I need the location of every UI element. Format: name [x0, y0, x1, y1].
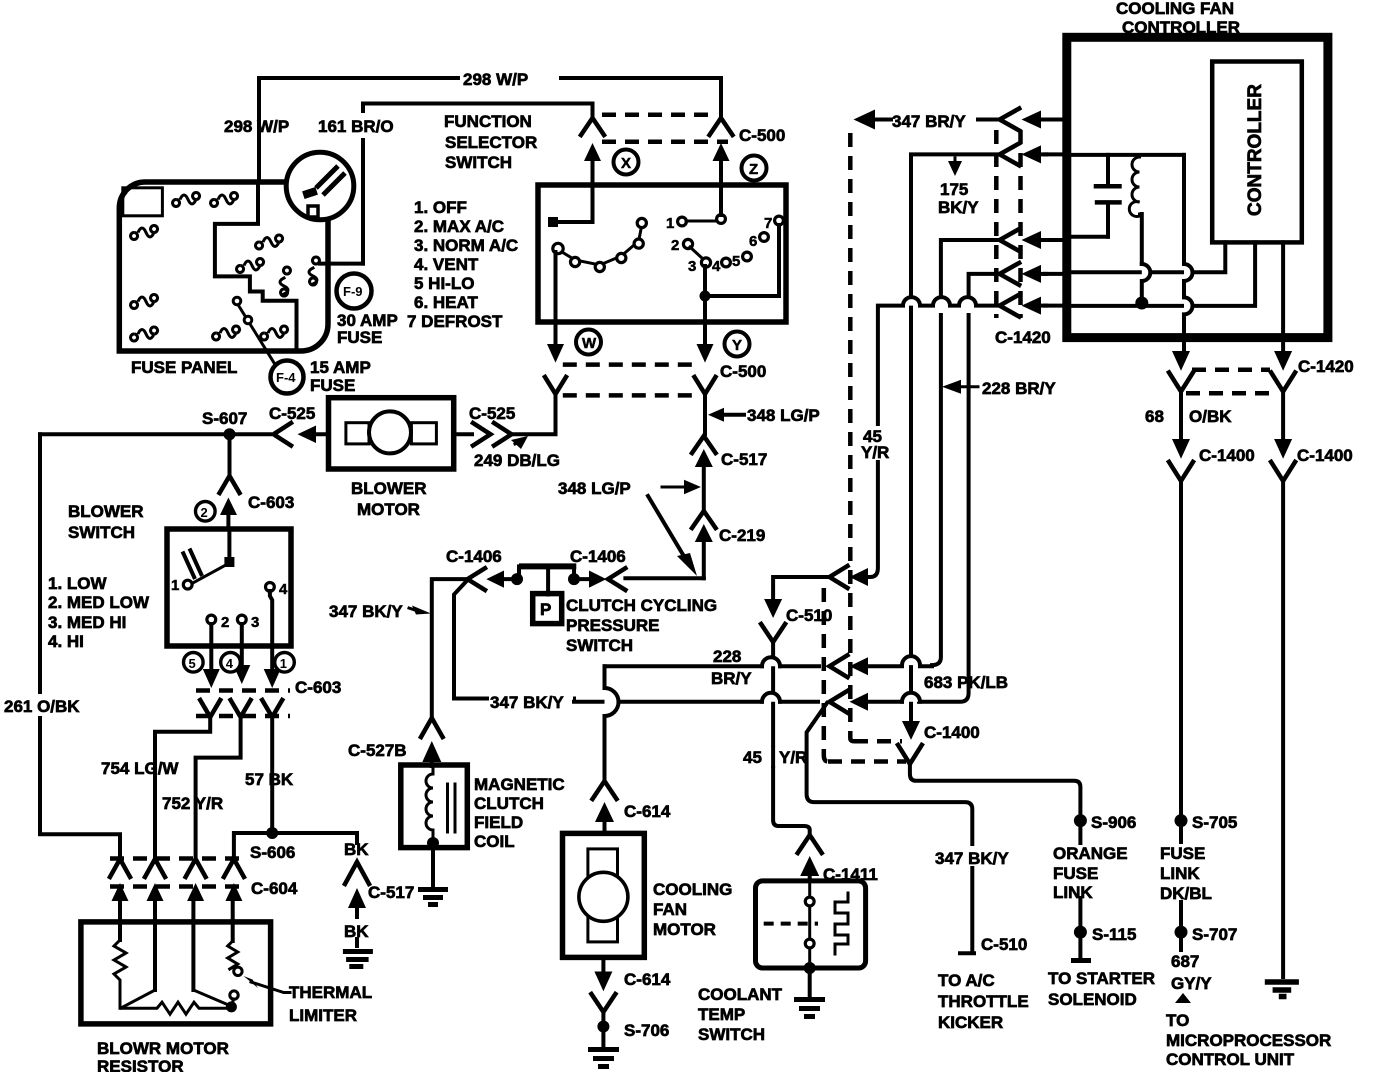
fuse S2 vertical	[309, 257, 319, 285]
junction node coil out	[427, 837, 439, 849]
connector row B female chevron	[830, 655, 848, 677]
coolant temp switch box	[756, 881, 866, 968]
junction node S-706	[597, 1021, 609, 1033]
connector C-603 male arrow t2	[203, 669, 220, 688]
svg-text:FUNCTION: FUNCTION	[444, 112, 532, 131]
connector C-1420 row4 female chevron	[1000, 263, 1020, 285]
connector C-525 left male arrow	[298, 426, 317, 444]
fuse row1b	[211, 193, 238, 207]
svg-text:C-1420: C-1420	[995, 328, 1051, 347]
connector row female chevron col2	[145, 859, 165, 877]
svg-text:348 LG/P: 348 LG/P	[747, 406, 820, 425]
resistor element col1	[114, 940, 126, 1008]
connector C-1420 bottom female chevron right	[1271, 373, 1295, 392]
wire 752 Y/R	[196, 717, 241, 856]
wire 347 BK/Y right of hop	[780, 700, 818, 704]
junction node S-606	[266, 827, 278, 839]
connector C-510 male arrow down	[764, 599, 782, 618]
resistor diagonal col3	[193, 990, 231, 1006]
connector C-1411 male arrow	[800, 856, 819, 876]
coolant temp switch thermistor	[835, 893, 848, 954]
controller cap row2 wire	[1071, 153, 1184, 157]
connector C-1400 female chevron left col	[1169, 462, 1193, 481]
svg-text:175: 175	[940, 180, 968, 199]
connector C-1420 bottom dashed boundaries	[1192, 367, 1270, 372]
svg-text:PRESSURE: PRESSURE	[566, 616, 660, 635]
leader arrow 347 BK/Y	[412, 606, 431, 615]
wire fuse to 161 BR/O	[320, 262, 363, 266]
connector C-500 male arrow X	[584, 143, 601, 161]
connector C-1420 row3 male arrow	[1022, 231, 1042, 249]
wire 161 BR/O	[363, 104, 593, 264]
arrow 347 BR/Y end	[854, 110, 876, 130]
svg-text:SWITCH: SWITCH	[445, 153, 512, 172]
svg-text:BK/Y: BK/Y	[938, 198, 979, 217]
svg-text:MOTOR: MOTOR	[653, 920, 716, 939]
terminal circle Y	[725, 332, 750, 357]
svg-text:BLOWER: BLOWER	[68, 502, 144, 521]
connector C-614 bottom male arrow	[594, 972, 612, 992]
wire C-510 down to coolant branch	[773, 641, 810, 832]
svg-text:1: 1	[280, 656, 287, 671]
svg-text:COOLANT: COOLANT	[698, 985, 783, 1004]
label circled 2	[196, 502, 216, 522]
connector row A male arrow (45 Y/R)	[850, 568, 869, 586]
svg-text:C-219: C-219	[719, 526, 765, 545]
svg-text:C-527B: C-527B	[348, 741, 407, 760]
wire coil to ground	[431, 848, 435, 887]
ignition switch circle	[286, 152, 354, 220]
svg-text:ORANGE: ORANGE	[1053, 844, 1128, 863]
selector wiper feed wire	[556, 185, 593, 222]
svg-text:SELECTOR: SELECTOR	[445, 133, 537, 152]
connector C-525 right chevron a	[473, 423, 491, 446]
svg-text:TO STARTER: TO STARTER	[1048, 969, 1155, 988]
selector wiper contacts	[553, 218, 647, 271]
svg-text:3. NORM A/C: 3. NORM A/C	[414, 236, 518, 255]
fuse row6c	[261, 326, 288, 340]
svg-text:BK: BK	[344, 840, 369, 859]
svg-text:CONTROLLER: CONTROLLER	[1245, 84, 1266, 216]
wire C-1406 source bus	[519, 563, 576, 569]
connector C-1420 row5 male arrow	[1022, 297, 1042, 315]
svg-text:687: 687	[1171, 952, 1199, 971]
wire controller right ground column	[1281, 480, 1285, 977]
terminal circle Z	[742, 156, 767, 181]
label circled 1	[275, 653, 295, 673]
label 347 BK/Y third	[933, 846, 1013, 866]
svg-text:MAGNETIC: MAGNETIC	[474, 775, 565, 794]
svg-text:752 Y/R: 752 Y/R	[162, 794, 223, 813]
connector C-1420 dashed boundaries	[994, 130, 999, 318]
connector C-1420 row4 male arrow	[1022, 265, 1042, 283]
connector C-500 top: female chevron X	[581, 118, 604, 135]
svg-text:348 LG/P: 348 LG/P	[558, 479, 631, 498]
svg-text:S-606: S-606	[250, 843, 295, 862]
svg-text:3. MED HI: 3. MED HI	[48, 613, 126, 632]
selector left terminal	[548, 217, 558, 227]
connector C-510 female chevron	[761, 624, 785, 642]
connector row A female chevron	[830, 566, 848, 588]
label 45 Y/R lower	[742, 747, 800, 766]
ground coolant temp switch	[794, 1000, 825, 1017]
svg-text:P: P	[540, 600, 551, 619]
connector C-500 top: female chevron Z	[710, 118, 733, 135]
connector C-1400 male arrow	[902, 721, 920, 740]
blower switch lever handle	[183, 549, 203, 580]
wire 261 O/BK left trunk	[40, 434, 120, 856]
wire fuse link lower	[1179, 902, 1183, 950]
svg-text:C-1400: C-1400	[1297, 446, 1353, 465]
svg-text:Y/R: Y/R	[779, 748, 807, 767]
arrow 249 DB/LG pointer	[511, 436, 528, 449]
svg-text:FUSE PANEL: FUSE PANEL	[131, 358, 237, 377]
selector blade 2-3	[690, 247, 703, 259]
svg-text:C-603: C-603	[295, 678, 341, 697]
fuse F-9 circle	[337, 274, 372, 309]
inductor coil controller	[1129, 157, 1139, 217]
selector wiper arc	[559, 225, 642, 265]
wire row1 347 BR/Y stub	[1045, 118, 1067, 122]
svg-text:LINK: LINK	[1160, 864, 1200, 883]
wire C-1406 to 347 BK/Y branch	[454, 580, 490, 699]
junction node S-115	[1074, 926, 1087, 939]
connector C-1420 row1 female chevron	[1000, 109, 1020, 131]
wire coolant to ground	[808, 968, 812, 996]
svg-text:C-517: C-517	[721, 450, 767, 469]
svg-text:S-706: S-706	[624, 1021, 669, 1040]
coolant temp switch dashed actuator	[764, 922, 818, 926]
connector C-1406 right male arrow	[589, 571, 606, 588]
svg-text:S-906: S-906	[1091, 813, 1136, 832]
svg-text:1. LOW: 1. LOW	[48, 574, 108, 593]
blower motor armature circle	[369, 411, 411, 453]
connector C-517 BK female chevron	[345, 862, 369, 884]
svg-text:S-115: S-115	[1092, 925, 1136, 944]
blower motor box	[329, 398, 454, 469]
svg-text:C-525: C-525	[469, 404, 515, 423]
connector C-614 bottom female chevron	[591, 994, 615, 1012]
fuse row3	[256, 235, 283, 249]
svg-text:GY/Y: GY/Y	[1171, 974, 1212, 993]
svg-text:SWITCH: SWITCH	[566, 636, 633, 655]
wire terminal 3 out	[240, 624, 244, 664]
function selector switch box	[538, 185, 786, 322]
coolant temp switch contacts	[808, 881, 811, 897]
wire to W branch	[512, 395, 556, 434]
svg-text:O/BK: O/BK	[1189, 407, 1232, 426]
fuse F-4 circle	[271, 361, 304, 394]
svg-text:4: 4	[226, 656, 234, 671]
connector C-1400 right col male arrow left	[1172, 439, 1190, 459]
selector 7-to-Y link wire	[705, 225, 779, 296]
svg-text:RESISTOR: RESISTOR	[97, 1057, 184, 1072]
connector C-604 male arrow col3	[187, 883, 204, 901]
connector C-1420 row2 female chevron	[1000, 143, 1020, 165]
wire row3 stub	[1045, 238, 1067, 242]
wire 68 O/BK	[1179, 391, 1183, 427]
svg-text:161 BR/O: 161 BR/O	[318, 117, 394, 136]
svg-text:261 O/BK: 261 O/BK	[4, 697, 80, 716]
svg-text:LINK: LINK	[1053, 883, 1093, 902]
wire orange fuse link lower	[1078, 898, 1082, 958]
svg-text:Y/R: Y/R	[861, 443, 889, 462]
wire row2 to C-1400 trunk	[911, 154, 1000, 722]
svg-text:3: 3	[688, 258, 696, 275]
connector C-219 female chevron	[692, 511, 716, 528]
svg-text:C-1420: C-1420	[1298, 357, 1354, 376]
connector C-1411 female chevron	[798, 835, 822, 853]
svg-text:TEMP: TEMP	[698, 1005, 745, 1024]
svg-text:C-1400: C-1400	[1199, 446, 1255, 465]
svg-text:2: 2	[671, 237, 679, 254]
svg-text:FAN: FAN	[653, 900, 687, 919]
wire 347 BK/Y diagonal to throttle kicker	[807, 703, 974, 953]
wire row5 stub	[1045, 304, 1067, 308]
svg-text:15 AMP: 15 AMP	[310, 358, 371, 377]
selector Z feed	[719, 185, 723, 215]
wire 45 Y/R continues	[870, 462, 878, 577]
wire 57 BK	[270, 717, 274, 832]
blower motor right brush	[411, 423, 436, 444]
connector row female chevron col4	[224, 859, 244, 877]
connector C-603 dashed boundary	[196, 688, 290, 693]
wire blower motor output	[454, 432, 472, 436]
svg-text:2: 2	[221, 614, 229, 631]
fuse panel corner notch	[123, 188, 163, 216]
terminal bar starter solenoid	[1071, 958, 1091, 963]
connector C-1420 row1 male arrow	[1022, 111, 1042, 129]
connector C-604 male arrow col1	[112, 883, 129, 901]
svg-text:298 W/P: 298 W/P	[224, 117, 289, 136]
svg-text:2. MED LOW: 2. MED LOW	[48, 593, 150, 612]
capacitor plates	[1094, 184, 1122, 189]
label circled 4	[221, 653, 241, 673]
magnetic clutch field coil box	[401, 765, 468, 848]
wire C-1400 to orange fuse link	[910, 763, 1081, 843]
svg-text:BK: BK	[344, 922, 369, 941]
connector row C female chevron	[830, 691, 848, 713]
clutch coil core bars	[448, 784, 456, 832]
connector C-500 bottom female chevron W	[545, 377, 566, 394]
wire 228 BR/Y to fan motor	[605, 664, 820, 668]
svg-text:4: 4	[712, 258, 721, 275]
wire S-607 bus	[40, 432, 270, 436]
svg-text:C-604: C-604	[251, 879, 298, 898]
svg-text:BR/Y: BR/Y	[711, 669, 752, 688]
arrow 348 LG/P pointer upper	[708, 408, 724, 422]
connector S-606/C-604 dashed boundaries	[110, 856, 245, 861]
wire fuse link dk/bl column	[1179, 480, 1183, 843]
cooling fan controller box	[1067, 37, 1328, 337]
dashed connector line C-500 vertical	[848, 133, 853, 738]
svg-text:4: 4	[279, 581, 288, 598]
svg-text:CLUTCH: CLUTCH	[474, 794, 544, 813]
connector row female chevron col1	[110, 859, 130, 877]
fuse row5	[131, 295, 158, 309]
wire terminal 2 out	[209, 624, 213, 668]
connector C-500 top dashed boundary	[602, 113, 714, 118]
fuse panel outline	[119, 182, 328, 351]
wire coil bottom with hop	[1140, 214, 1144, 264]
svg-text:SOLENOID: SOLENOID	[1048, 990, 1137, 1009]
wire hop row B over C-1400 trunk	[902, 656, 920, 665]
connector C-1406 left female chevron	[468, 568, 486, 590]
connector C-603 top male arrow	[220, 498, 237, 516]
fan motor armature circle	[579, 872, 628, 921]
svg-text:4. VENT: 4. VENT	[414, 255, 479, 274]
wire row2 stub	[1045, 152, 1067, 156]
wire 347 BK/Y to coolant branch	[490, 697, 574, 701]
svg-text:C-500: C-500	[720, 362, 766, 381]
fuse panel inner partition	[215, 182, 297, 351]
svg-text:COOLING: COOLING	[653, 880, 732, 899]
fuse row2	[131, 226, 158, 240]
connector C-1420 row2 male arrow	[1022, 145, 1042, 163]
blower switch terminal 4	[266, 583, 275, 592]
blower switch terminal 3	[237, 615, 246, 624]
junction node S-707	[1175, 926, 1188, 939]
svg-text:2: 2	[201, 505, 208, 520]
svg-text:C-517: C-517	[368, 883, 414, 902]
leader diagonal 348 LG/P	[648, 496, 688, 563]
connector C-500 bottom dashed boundary	[563, 362, 696, 367]
wire row A to C-510	[773, 577, 829, 598]
ground right column	[1265, 982, 1299, 997]
connector C-527B female chevron	[421, 718, 443, 737]
label 228 BR/Y right	[942, 380, 961, 394]
svg-text:45: 45	[743, 748, 762, 767]
svg-text:C-1400: C-1400	[924, 723, 980, 742]
connector C-1400 female chevron right col	[1271, 462, 1295, 481]
blower switch terminal 2	[207, 615, 216, 624]
connector C-603 female chevron c1	[200, 700, 220, 717]
connector C-1420 bottom male arrow left	[1172, 351, 1190, 371]
svg-text:MOTOR: MOTOR	[357, 500, 420, 519]
svg-text:5: 5	[732, 253, 740, 270]
connector C-1420 row5 female chevron	[1000, 295, 1020, 317]
selector terminal row1 link	[686, 220, 717, 223]
connector C-1400 female chevron	[898, 745, 922, 764]
svg-text:BLOWER: BLOWER	[351, 479, 427, 498]
svg-text:347 BK/Y: 347 BK/Y	[935, 849, 1009, 868]
svg-text:228: 228	[713, 647, 741, 666]
blower switch wiper blade	[191, 563, 229, 584]
connector C-517 BK male arrow	[348, 888, 366, 908]
resistor bottom bus	[120, 1002, 231, 1014]
ignition key glyph	[316, 166, 338, 188]
cooling fan motor box	[563, 833, 645, 957]
svg-text:MICROPROCESSOR: MICROPROCESSOR	[1166, 1031, 1331, 1050]
connector C-603 male arrow t4	[264, 669, 281, 688]
svg-text:1: 1	[171, 577, 179, 594]
wire row5 internal	[1071, 242, 1255, 306]
connector C-603 female chevron c3	[262, 700, 282, 717]
terminal circle W	[576, 330, 601, 355]
ground clutch coil	[418, 890, 448, 905]
blower switch box	[167, 529, 291, 646]
junction node resistor common	[226, 1001, 237, 1012]
svg-text:4. HI: 4. HI	[48, 632, 84, 651]
wire row5 45 Y/R trunk with hops	[903, 297, 976, 306]
svg-text:7: 7	[764, 215, 772, 232]
junction node coil to row5	[1135, 297, 1148, 310]
connector C-219 male arrow	[695, 524, 713, 542]
wire row3 to cap bottom	[1071, 235, 1108, 239]
junction node S-705	[1175, 814, 1188, 827]
svg-text:3: 3	[251, 614, 259, 631]
svg-text:C-500: C-500	[739, 126, 785, 145]
connector C-525 left female chevron	[274, 423, 292, 446]
svg-text:2. MAX A/C: 2. MAX A/C	[414, 217, 504, 236]
svg-text:S-707: S-707	[1192, 925, 1237, 944]
connector C-614 top male arrow	[595, 802, 614, 822]
clutch coil winding	[426, 765, 433, 842]
connector C-500 bottom male arrow Y	[697, 344, 714, 363]
capacitor stubs	[1106, 155, 1110, 237]
svg-text:C-603: C-603	[248, 493, 294, 512]
svg-text:347 BR/Y: 347 BR/Y	[892, 112, 966, 131]
svg-text:Y: Y	[732, 337, 742, 354]
fuse row4	[237, 259, 264, 273]
svg-text:LIMITER: LIMITER	[289, 1006, 357, 1025]
connector C-1420 bottom male arrow right	[1274, 351, 1292, 371]
fuse diagonal to 15A	[237, 303, 276, 366]
connector C-1400 right col male arrow right	[1274, 439, 1292, 459]
svg-text:C-614: C-614	[624, 802, 671, 821]
svg-text:W: W	[582, 335, 597, 352]
fuse row1a	[173, 193, 200, 207]
wire hop 228 BR/Y over C-510	[762, 657, 780, 666]
svg-text:347 BK/Y: 347 BK/Y	[490, 693, 564, 712]
connector row C male arrow (683 PK/LB)	[850, 693, 869, 711]
svg-text:228 BR/Y: 228 BR/Y	[982, 379, 1056, 398]
svg-text:1. OFF: 1. OFF	[414, 198, 467, 217]
label 175 BK/Y	[948, 161, 962, 176]
arrow to microprocessor	[1175, 993, 1191, 1003]
svg-text:THROTTLE: THROTTLE	[938, 992, 1029, 1011]
svg-text:683 PK/LB: 683 PK/LB	[924, 673, 1008, 692]
connector C-500 bottom female chevron Y	[695, 377, 716, 394]
svg-text:S-607: S-607	[202, 409, 247, 428]
svg-text:1: 1	[666, 215, 674, 232]
controller inner box	[1212, 62, 1302, 243]
svg-text:X: X	[621, 155, 631, 172]
svg-text:Z: Z	[749, 161, 758, 178]
junction node Y	[700, 291, 711, 302]
svg-text:298 W/P: 298 W/P	[463, 70, 528, 89]
svg-text:SWITCH: SWITCH	[68, 523, 135, 542]
resistor diagonal col2	[121, 990, 155, 1008]
connector C-517 female chevron	[692, 436, 716, 453]
svg-text:DK/BL: DK/BL	[1160, 884, 1212, 903]
svg-text:TO A/C: TO A/C	[938, 971, 995, 990]
connector C-525 right chevron b	[494, 423, 512, 446]
connector C-603 top female chevron	[220, 476, 240, 493]
label circled 5	[184, 653, 204, 673]
blower motor left brush	[346, 423, 369, 444]
junction node S-906	[1074, 814, 1087, 827]
wire fan motor to ground	[601, 957, 605, 970]
connector C-517 male arrow	[695, 449, 713, 467]
svg-text:FIELD: FIELD	[474, 813, 523, 832]
fan motor armature rect	[588, 849, 618, 942]
svg-text:249 DB/LG: 249 DB/LG	[474, 451, 560, 470]
connector C-604 male arrow col2	[147, 883, 164, 901]
wire row4 683 PK/LB trunk	[919, 274, 1000, 702]
resistor element col4 / thermal limiter	[228, 941, 238, 969]
svg-text:754 LG/W: 754 LG/W	[101, 759, 179, 778]
